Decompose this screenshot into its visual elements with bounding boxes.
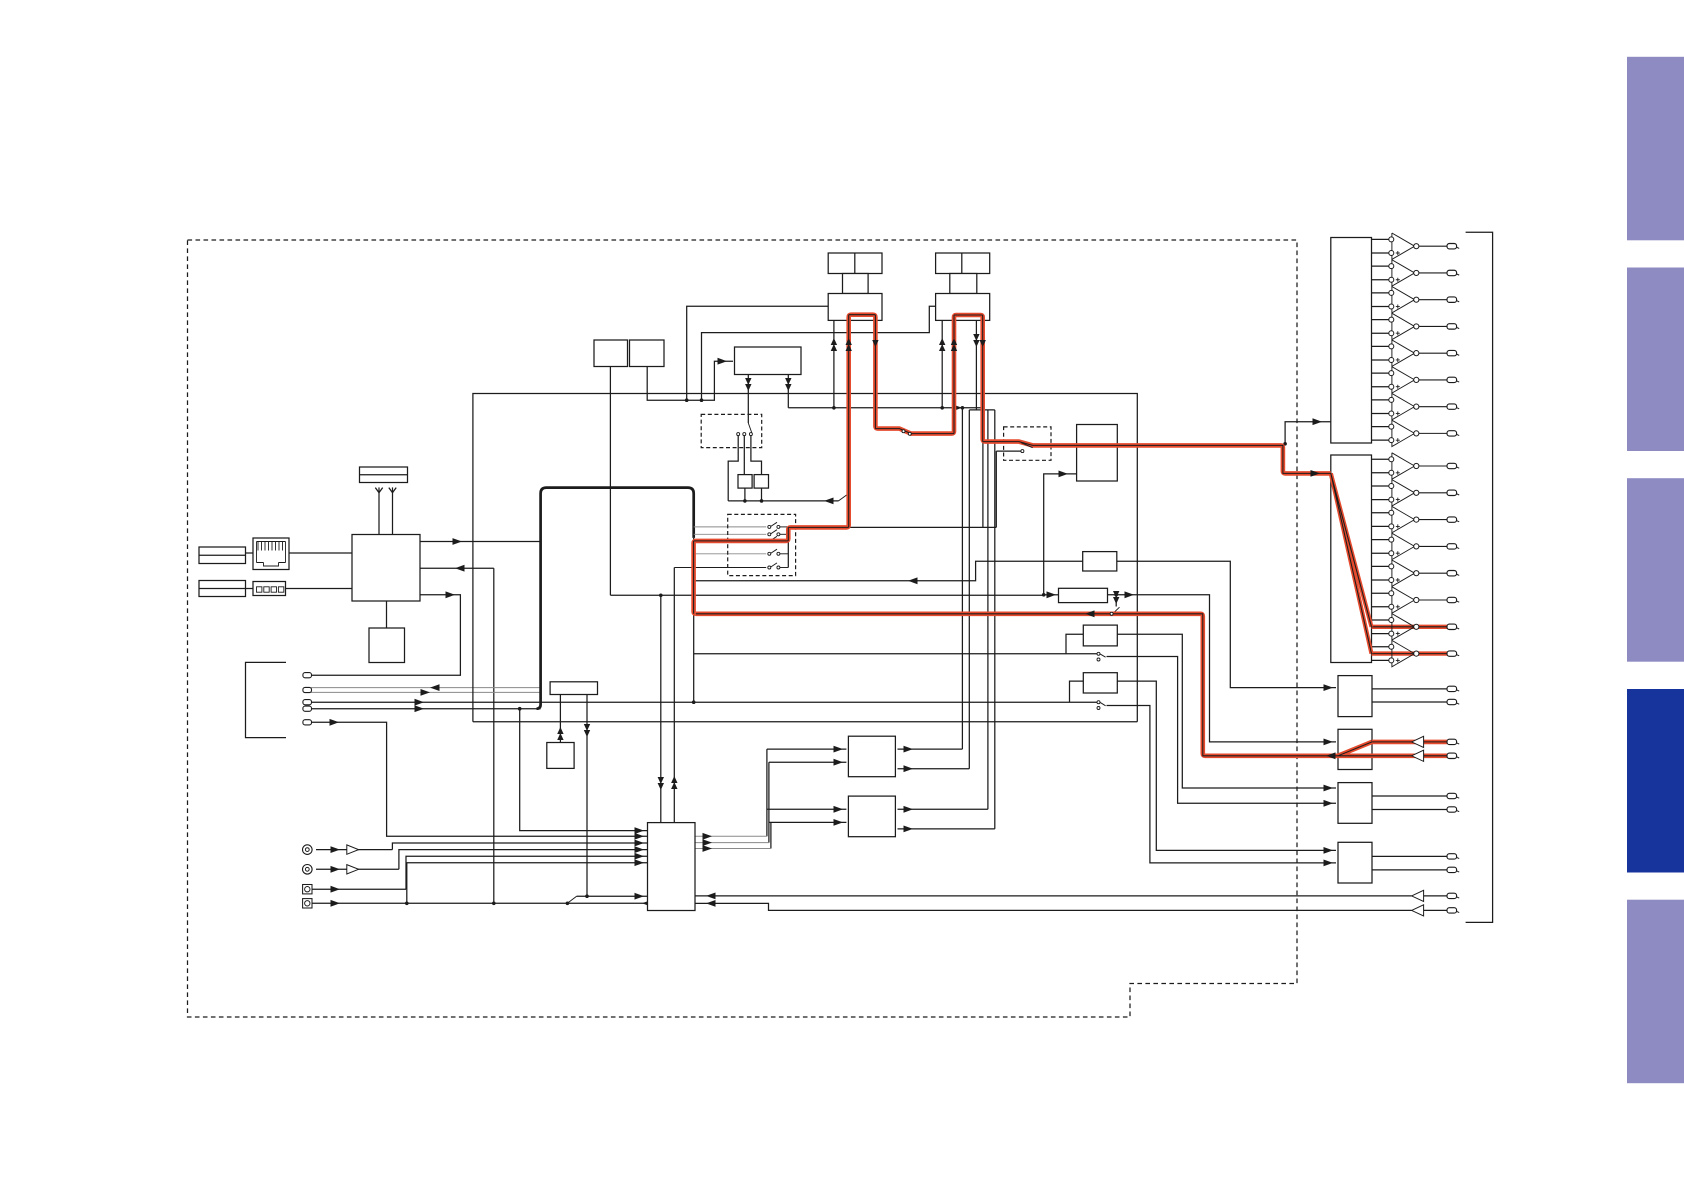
arrow red out of boxB [1326, 752, 1336, 759]
adda to effect bundle v1 [766, 749, 768, 836]
adda input arrows [635, 833, 645, 840]
vertical channel insert down [660, 595, 662, 822]
amp top box input [1285, 422, 1331, 444]
meter box tails [744, 488, 746, 501]
monitor select bus black under red y527 [788, 526, 996, 528]
amp row T5 [1372, 345, 1392, 347]
m1 inputs [767, 748, 847, 750]
amp row T8 [1372, 426, 1392, 428]
black core wires of red path [694, 315, 1447, 756]
boxC outputs [1372, 795, 1447, 797]
wire: monitor vertical to phones line [493, 568, 495, 903]
effect return vertical 2 [968, 410, 970, 769]
wire: T2 line a [311, 687, 541, 689]
label box ethernet [199, 547, 246, 564]
wire: bus tap y653.8 to switch to boxC in2 [694, 653, 1097, 655]
switch on y653.8 [1097, 652, 1100, 655]
adda box [648, 823, 696, 911]
wire: bus tap y580 to p1 [694, 561, 1083, 581]
selected channel rail y595 [610, 594, 1043, 596]
p1 box [1083, 552, 1117, 571]
wire: T5 to adda in2 [311, 722, 648, 836]
amp row T2 [1372, 265, 1392, 267]
wire: p4 out to boxD in1 [1116, 681, 1336, 850]
wire: group2 left leg [702, 306, 936, 400]
tiny meter box 1 [738, 475, 752, 489]
monitor select widebox [735, 347, 802, 375]
amp row T6 [1372, 372, 1392, 374]
switch on y702.2 [1097, 701, 1100, 704]
amp row T4 [1372, 319, 1392, 321]
2tr left amps [1412, 736, 1424, 747]
2TR line upper [695, 895, 1412, 897]
phones jack J4 chain [312, 902, 648, 904]
effect return vertical 4 [994, 410, 996, 829]
input jack J2 chain [316, 868, 399, 870]
effect box m1 [848, 736, 895, 777]
boxA out dac [1338, 676, 1372, 717]
meter bus to bus-junction [728, 500, 838, 502]
adda to effect bundle v3 [770, 822, 772, 848]
monitor source switch lever [748, 423, 752, 434]
adda out gray 1 [695, 835, 767, 837]
arrow on red monitor bus pointing left [1085, 610, 1095, 617]
page tab bar 5 [1627, 900, 1684, 1083]
amp row B4 [1372, 539, 1392, 541]
terminal T5 [303, 720, 312, 725]
antenna mark right [389, 488, 396, 493]
page tab bar 2 [1627, 268, 1684, 452]
dashed selector box D3 [1004, 427, 1051, 460]
red monitor path: 2tr-in to boxB [694, 315, 1447, 756]
wire: T3 to switch to boxD [311, 701, 1097, 703]
switch matrix right vertical [787, 527, 789, 568]
usb jack [253, 582, 286, 596]
ethernet jack [253, 538, 289, 570]
wire: group2 pin black [941, 320, 943, 407]
m2 inputs [767, 808, 847, 810]
boxD aux dac 2 [1338, 842, 1372, 883]
topbox2 [630, 340, 665, 367]
effect return vertical 3 [987, 410, 989, 809]
group2 connector [950, 274, 977, 294]
sub box [369, 628, 405, 663]
switch contact 2 drop [743, 436, 745, 475]
wire: rise to boxQ [1044, 474, 1077, 595]
switchbox feed line 4 [694, 553, 767, 555]
display box [360, 467, 408, 483]
amp top dac box [1331, 238, 1372, 444]
wire: into p2 [1044, 594, 1059, 596]
wire: cpu to sub box [386, 601, 388, 628]
amp row B2 [1372, 485, 1392, 487]
arrow on red line into bottom dac [1311, 470, 1321, 477]
wire: display to cpu left [378, 492, 380, 535]
group2 cells [936, 253, 990, 274]
wire: switch to boxD in2 [1107, 706, 1337, 863]
wire: p1 out to boxA [1117, 561, 1336, 687]
group1 cells [828, 253, 882, 274]
wire: p3 in branch [1066, 634, 1083, 654]
wire: group1 pin black [833, 320, 835, 407]
terminal T2 [303, 687, 312, 692]
page tab bar 4 (active) [1627, 689, 1684, 873]
vertical L3 end down [982, 408, 984, 528]
jack J4 [303, 899, 312, 908]
wire: junction to boxB [1137, 595, 1336, 742]
p4 box [1083, 673, 1117, 693]
bus thin continuation down [693, 538, 695, 702]
monitor switch on red bus [1110, 612, 1113, 615]
small box F2 [547, 743, 574, 769]
adda to effect bundle v2 [768, 762, 770, 842]
terminal T1 [303, 673, 312, 678]
wire: T2 line b [311, 691, 541, 693]
wire: F1 down to phones select [586, 695, 588, 897]
terminal T4 [303, 706, 312, 711]
long rail bottom [473, 721, 1137, 723]
wire: group2 pin3 black [975, 320, 977, 410]
monitor source switch pole [747, 375, 749, 424]
output bracket right [1466, 232, 1493, 922]
switch jog on red y433 [902, 430, 905, 433]
group2 large box [936, 294, 990, 321]
boxA outputs [1372, 688, 1447, 690]
switchbox feed line 2 [694, 533, 767, 535]
jack J1 [303, 845, 313, 855]
adda input 1 from bus tap [520, 709, 648, 831]
amp row B6 [1372, 592, 1392, 594]
cpu box [352, 535, 420, 602]
wire: cpu out to bus [420, 541, 540, 543]
page tab bar 1 [1627, 57, 1684, 241]
amp row B1 [1372, 458, 1392, 460]
selector switch in D3 [1021, 443, 1033, 448]
meter bus diagonal to red leg [839, 494, 849, 501]
label box usb [199, 581, 246, 597]
adda out gray 3 [695, 848, 771, 850]
wire: p3 out to boxC in1 [1116, 634, 1336, 788]
group1 connector [843, 274, 869, 294]
boxC aux dac [1338, 783, 1372, 824]
tiny meter box 2 [754, 475, 768, 489]
m2 outputs [898, 808, 988, 810]
amp bottom dac box [1331, 455, 1372, 663]
dashed selector box D2 [728, 514, 796, 575]
wire: p2 branch down to monitor switch [1115, 595, 1117, 607]
m1 outputs [898, 748, 963, 750]
antenna mark left [375, 488, 382, 493]
monitor defeat stub [996, 450, 1021, 452]
wire: F1 to F2 [559, 695, 561, 743]
rail L3 monitor-select feed [787, 375, 789, 408]
wire: usb jack to cpu [286, 588, 353, 590]
phones select switch [567, 896, 576, 903]
amp row B5 [1372, 565, 1392, 567]
switchbox feed line 5 [674, 567, 766, 569]
switch contact 3 drop [751, 436, 762, 475]
monitor defeat vertical [995, 451, 997, 527]
boxQ talkback [1077, 425, 1118, 482]
branch to adda input 6 [407, 863, 648, 904]
input jack J1 chain [316, 849, 392, 851]
switchbox feed line 1 [694, 526, 767, 528]
wire: T4 to bus foot [311, 708, 541, 710]
dashed selector box D1 [701, 414, 762, 447]
wire: cpu out to lamp jack [311, 595, 460, 675]
vertical from line5 down [673, 568, 675, 823]
wire: p2 out to junction [1108, 594, 1138, 596]
boxB 2tr in [1338, 729, 1372, 769]
p3 box [1083, 625, 1117, 646]
amp row B7 [1372, 619, 1392, 621]
rail L2 from topbox2 to widebox [647, 361, 733, 400]
long rail L1 top [473, 394, 1137, 722]
amp row T1 [1372, 238, 1392, 240]
amp row B8 [1372, 646, 1392, 648]
dashed console boundary [188, 240, 1298, 1017]
jack J2 [303, 865, 313, 875]
boxD outputs [1372, 855, 1447, 857]
amp row T7 [1372, 399, 1392, 401]
terminal T3 [303, 700, 312, 705]
wire: group1 left leg [687, 306, 829, 400]
amp row B3 [1372, 512, 1392, 514]
wire: topbox1 drop to selected-channel rail [609, 367, 611, 596]
adda out gray 2 [695, 842, 769, 844]
wire: monitor return into cpu [420, 567, 494, 569]
arrows on red legs [846, 338, 852, 345]
topbox1 [594, 340, 628, 367]
thick bus loop [537, 488, 694, 709]
jack J3 [303, 885, 312, 894]
wire: usb label to jack [246, 588, 254, 590]
bracket left group [246, 662, 287, 737]
phones amp flat box F1 [550, 682, 597, 695]
rail L3b short [969, 409, 995, 411]
wire: display to cpu right [392, 492, 394, 535]
switchbox contacts and tails [768, 525, 771, 528]
input jack J3 chain [312, 888, 406, 890]
red fan in bottom dac box [1331, 473, 1372, 653]
wire: p4 in branch [1070, 681, 1084, 702]
wire: ethernet jack to cpu [289, 552, 352, 554]
red terminals 2tr [1447, 739, 1457, 744]
2TR line lower [695, 903, 1412, 910]
group1 large box [828, 294, 882, 321]
switch contact 1 drop [728, 436, 738, 501]
p2 flat box [1059, 588, 1108, 602]
wire: ethernet label to jack [246, 552, 254, 554]
effect box m2 [848, 796, 895, 837]
amp row T3 [1372, 292, 1392, 294]
effect return vertical 1 [961, 408, 963, 749]
page tab bar 3 [1627, 478, 1684, 662]
